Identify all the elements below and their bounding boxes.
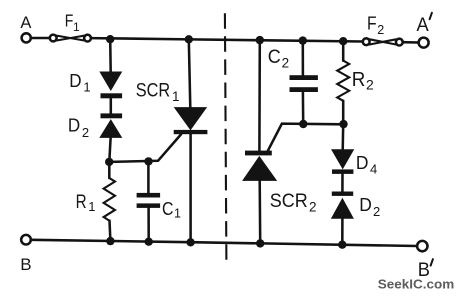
svg-text:2: 2	[373, 204, 380, 219]
svg-text:D: D	[359, 194, 372, 215]
node top SCR2 branch	[256, 36, 264, 44]
label B prime tick	[431, 259, 433, 265]
svg-text:F: F	[367, 14, 377, 34]
SCR U1 (SCR1)	[174, 39, 208, 242]
fuse F2	[363, 38, 403, 45]
terminal B'	[417, 241, 427, 251]
svg-text:2: 2	[309, 199, 317, 214]
wire D4 branch top	[341, 124, 344, 150]
diode D2	[101, 113, 123, 137]
wire top bus	[91, 38, 363, 41]
svg-text:C: C	[162, 199, 174, 219]
capacitor C2	[290, 41, 318, 124]
node top D1 branch	[106, 35, 114, 43]
diode D1	[101, 72, 123, 98]
svg-text:D: D	[69, 70, 81, 91]
wire between D4 and D2	[341, 172, 344, 193]
node gate C2 bottom	[299, 120, 307, 128]
svg-text:2: 2	[366, 77, 374, 93]
svg-text:1: 1	[174, 207, 181, 221]
fuse F1	[50, 35, 91, 42]
svg-text:D: D	[356, 152, 369, 173]
svg-text:D: D	[68, 116, 80, 136]
wire D2 to bottom bus	[341, 217, 344, 245]
node top SCR1 branch	[185, 35, 193, 43]
wire F2 to A'	[403, 41, 419, 44]
terminal B	[21, 235, 31, 245]
terminal A	[22, 33, 31, 42]
svg-text:2: 2	[377, 23, 384, 37]
node gate R2 bottom	[339, 120, 347, 128]
svg-text:1: 1	[73, 20, 80, 34]
svg-text:R: R	[352, 69, 366, 91]
diode D4	[332, 150, 353, 174]
wire bottom bus	[31, 240, 417, 246]
svg-text:B: B	[20, 255, 31, 274]
SCR U2 (SCR2)	[244, 40, 276, 243]
svg-text:2: 2	[282, 56, 290, 71]
svg-text:A: A	[417, 15, 430, 36]
wire between D1 and D2	[110, 96, 113, 115]
svg-text:SCR: SCR	[136, 80, 170, 102]
wire D2 to gate node	[109, 136, 110, 162]
node bottom C1	[145, 238, 153, 246]
node bottom D2 right	[338, 241, 346, 249]
label A prime tick	[430, 13, 432, 19]
svg-text:SCR: SCR	[270, 190, 308, 212]
svg-text:A: A	[20, 14, 31, 32]
wire A to F1	[31, 37, 50, 40]
svg-text:C: C	[268, 47, 281, 68]
dashed divider line	[225, 13, 227, 262]
svg-text:2: 2	[82, 125, 89, 140]
resistor R2	[337, 41, 349, 124]
wire gate net of SCR1	[109, 134, 181, 162]
wire D1 branch top	[109, 39, 112, 73]
svg-text:1: 1	[172, 89, 180, 104]
node gate R1	[105, 158, 113, 166]
svg-text:4: 4	[370, 162, 377, 177]
capacitor C1	[137, 161, 161, 241]
node top R2 branch	[339, 37, 347, 45]
wire gate net of SCR2	[267, 124, 343, 153]
resistor R1	[104, 162, 115, 241]
node top C2 branch	[299, 36, 307, 44]
svg-text:SeekIC.com: SeekIC.com	[378, 278, 455, 292]
svg-text:R: R	[76, 192, 87, 213]
svg-text:1: 1	[88, 199, 95, 214]
terminal A'	[419, 38, 429, 48]
node bottom R1	[106, 237, 114, 245]
diode D2 (right)	[332, 192, 353, 218]
node gate C1	[144, 157, 152, 165]
node bottom SCR2	[256, 239, 264, 247]
svg-text:1: 1	[83, 80, 90, 95]
node bottom SCR1	[186, 238, 194, 246]
